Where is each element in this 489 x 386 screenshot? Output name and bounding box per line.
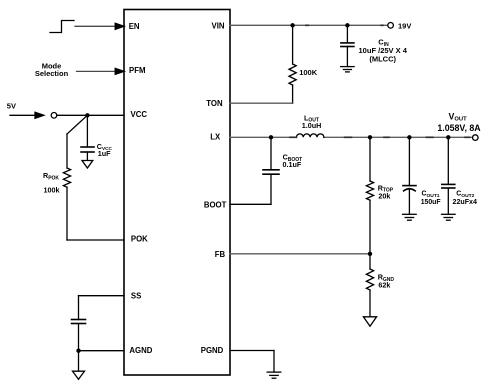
capacitor CVCC	[81, 115, 94, 160]
svg-text:22uFx4: 22uFx4	[453, 198, 478, 206]
wire AGND	[79, 350, 125, 352]
capacitor COUT1 polarized	[403, 137, 416, 214]
ground COUT2	[442, 214, 456, 220]
inductor LOUT	[296, 134, 324, 137]
label RTOP 20k	[378, 183, 394, 200]
svg-text:5V: 5V	[7, 101, 16, 110]
junction AGND node	[76, 349, 80, 353]
junction LX-COUT2	[446, 135, 450, 139]
svg-text:BOOT: BOOT	[204, 201, 227, 210]
svg-text:TON: TON	[206, 99, 223, 108]
wire VIN	[230, 24, 388, 26]
svg-text:RPOK: RPOK	[43, 171, 59, 181]
svg-text:Selection: Selection	[35, 69, 69, 78]
junction VCC node	[85, 113, 89, 117]
svg-text:VOUT: VOUT	[449, 111, 468, 122]
label LOUT 1.0uH	[302, 113, 322, 130]
terminal 5V	[51, 113, 57, 119]
resistor 100K TON	[289, 25, 296, 103]
wire PGND	[230, 351, 274, 373]
label COUT2 22uFx4	[453, 191, 478, 207]
junction VIN-CIN	[345, 23, 349, 27]
svg-text:100k: 100k	[44, 185, 60, 194]
svg-text:COUT1: COUT1	[422, 191, 440, 199]
ground AGND open triangle	[73, 351, 85, 380]
wire SS	[79, 296, 125, 320]
5V input arrow	[10, 112, 44, 118]
junction LX-CBOOT	[269, 135, 273, 139]
wire tick artifacts	[290, 25, 470, 137]
svg-text:0.1uF: 0.1uF	[283, 160, 302, 169]
wire POK	[67, 239, 124, 241]
label CIN value	[359, 38, 408, 64]
svg-text:150uF: 150uF	[421, 199, 441, 206]
IC U1 body	[124, 10, 230, 376]
svg-text:EN: EN	[129, 22, 140, 31]
ground CIN	[341, 67, 354, 72]
svg-text:PGND: PGND	[201, 346, 224, 355]
svg-text:1.0uH: 1.0uH	[302, 121, 322, 130]
svg-text:20k: 20k	[378, 191, 390, 200]
wire LX	[230, 136, 473, 138]
ground CVCC open triangle	[82, 161, 93, 169]
svg-text:POK: POK	[131, 235, 148, 244]
label RGND 62k	[378, 273, 395, 290]
capacitor CBOOT	[263, 137, 279, 204]
svg-text:62k: 62k	[378, 280, 390, 289]
capacitor COUT2	[442, 137, 455, 214]
label VOUT 1.058V 8A	[437, 111, 481, 132]
label CVCC 1uF	[97, 142, 113, 158]
junction VIN-100K	[290, 23, 294, 27]
ground RGND open triangle	[363, 317, 376, 326]
svg-text:VIN: VIN	[212, 21, 225, 30]
svg-text:1.058V, 8A: 1.058V, 8A	[437, 123, 481, 133]
wire VCC	[57, 114, 124, 116]
svg-text:VCC: VCC	[131, 110, 148, 119]
svg-text:SS: SS	[131, 291, 141, 300]
resistor RTOP	[366, 137, 373, 254]
junction LX-COUT1	[407, 135, 411, 139]
svg-text:1uF: 1uF	[98, 149, 111, 158]
capacitor CIN	[341, 25, 354, 66]
EN step waveform	[50, 21, 74, 33]
svg-text:LX: LX	[210, 133, 221, 142]
wire BOOT	[230, 203, 271, 205]
terminal VOUT	[473, 135, 479, 141]
PFM input arrow	[77, 68, 125, 74]
svg-text:FB: FB	[215, 250, 226, 259]
label Mode Selection	[35, 61, 69, 78]
svg-text:100K: 100K	[299, 68, 318, 77]
junction FB node	[368, 252, 372, 256]
svg-text:PFM: PFM	[129, 66, 145, 75]
ground PGND	[267, 372, 281, 378]
terminal 19V	[388, 23, 394, 29]
svg-text:(MLCC): (MLCC)	[369, 54, 396, 63]
svg-text:19V: 19V	[398, 22, 411, 31]
ground COUT1	[403, 214, 417, 220]
label CBOOT 0.1uF	[283, 153, 303, 169]
label RPOK 100k	[43, 171, 60, 194]
label COUT1 150uF	[421, 191, 441, 207]
capacitor SS	[72, 320, 86, 351]
EN input arrow	[75, 23, 124, 29]
svg-text:AGND: AGND	[129, 346, 152, 355]
wire TON	[230, 102, 293, 104]
junction LX-RTOP	[368, 135, 372, 139]
wire FB	[230, 253, 370, 255]
resistor RGND	[366, 254, 373, 316]
resistor RPOK	[63, 115, 87, 240]
